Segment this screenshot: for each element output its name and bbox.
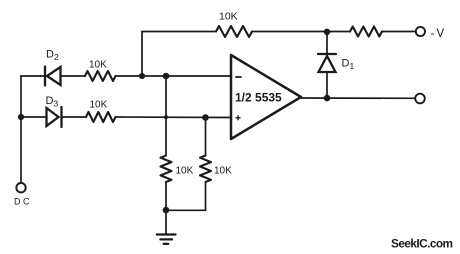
svg-text:10K: 10K: [176, 166, 194, 177]
wire divider riser left: [165, 76, 167, 156]
node D junction (output, D1 anode): [324, 95, 331, 102]
resistor R3 10K (vertical left): [161, 156, 172, 183]
wire ground stem: [165, 210, 167, 234]
diode D1 vertical: [318, 32, 336, 98]
node E junction (divider tap row2): [202, 114, 209, 121]
node B junction (divider tap row1): [163, 73, 170, 80]
op-amp non-inverting mark: [236, 116, 240, 120]
wire R4 bottom leg: [166, 182, 206, 210]
wire row1 from bus to D2: [21, 75, 44, 77]
svg-text:1/2 5535: 1/2 5535: [235, 91, 282, 105]
op-amp inverting mark: [236, 76, 241, 78]
node F junction (bus row2): [18, 114, 24, 120]
ground: [157, 235, 176, 244]
wire Rv to -V terminal: [382, 31, 416, 33]
wire R1 to op-amp inverting input: [116, 75, 232, 77]
svg-text:D1: D1: [342, 58, 355, 72]
diode D2: [45, 67, 61, 86]
svg-text:10K: 10K: [89, 60, 107, 71]
wire R3 bottom to ground node: [165, 182, 167, 210]
op-amp U1 1/2 5535: [231, 55, 301, 139]
resistor Rv (to -V): [350, 27, 382, 37]
svg-text:SeekIC.com: SeekIC.com: [391, 237, 453, 251]
wire row2 from bus to D3: [21, 116, 46, 118]
node C junction (top, D1 cathode): [324, 29, 330, 35]
resistor R4 10K (vertical right): [200, 156, 211, 183]
wire op-amp output row: [300, 97, 415, 99]
svg-text:10K: 10K: [90, 100, 108, 111]
resistor R2 10K (row 2): [86, 112, 116, 122]
terminal output: [415, 94, 425, 104]
wire Rf to node C: [252, 31, 350, 33]
terminal -V: [416, 27, 425, 36]
terminal DC input: [16, 183, 25, 192]
svg-text:D3: D3: [46, 95, 59, 109]
svg-text:10K: 10K: [214, 166, 232, 177]
node G junction (riser crosses row2): [164, 115, 168, 119]
svg-text:D2: D2: [46, 49, 59, 63]
node H junction (ground node): [163, 207, 170, 214]
wire D3 to R2: [62, 116, 87, 118]
svg-text:-V: -V: [431, 28, 447, 40]
wire divider riser right: [205, 118, 207, 156]
wire feedback riser: [142, 32, 216, 77]
resistor R1 10K (row 1): [85, 71, 116, 81]
diode D3: [47, 107, 62, 127]
resistor Rf 10K (feedback, top): [216, 26, 252, 37]
svg-text:DC: DC: [14, 197, 32, 207]
wire D2 to R1: [61, 75, 86, 77]
node A junction (feedback tap): [139, 73, 145, 79]
svg-text:10K: 10K: [219, 11, 238, 23]
wire R2 to op-amp non-inverting input: [116, 116, 232, 119]
wire left vertical input bus: [20, 76, 22, 183]
